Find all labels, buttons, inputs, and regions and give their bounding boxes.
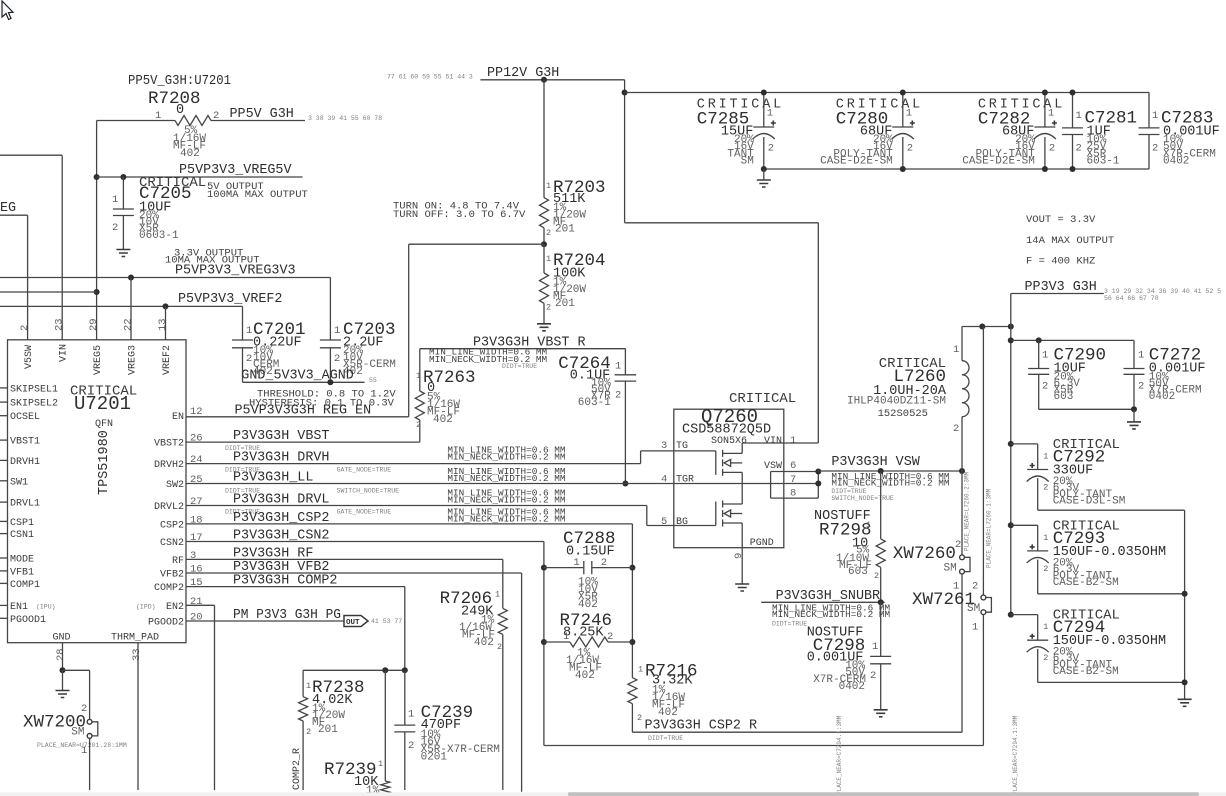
svg-text:PP5V G3H: PP5V G3H bbox=[230, 107, 294, 122]
svg-text:VFB2: VFB2 bbox=[160, 570, 184, 581]
wire VREF2 stub pin 13 bbox=[165, 306, 167, 339]
svg-text:9: 9 bbox=[733, 553, 745, 559]
resistor R7238 body bbox=[299, 697, 308, 721]
wire C7294 return bbox=[1038, 681, 1185, 683]
pin stub VBST1 bbox=[0, 439, 8, 441]
wire XW7261 pin1 lead bbox=[982, 615, 984, 746]
svg-text:TPS51980: TPS51980 bbox=[97, 430, 112, 495]
wire R7238 bottom lead bbox=[302, 721, 304, 790]
wire R7246 left lead bbox=[544, 641, 570, 643]
capacitor C7292 bbox=[1011, 443, 1038, 445]
svg-text:2: 2 bbox=[497, 642, 502, 652]
capacitor C7290 plates bbox=[1028, 369, 1049, 375]
svg-text:1: 1 bbox=[790, 435, 796, 447]
svg-text:0402: 0402 bbox=[839, 681, 865, 693]
svg-text:VIN: VIN bbox=[764, 436, 782, 447]
wire C7272 bottom lead bbox=[1133, 374, 1135, 409]
svg-text:201: 201 bbox=[555, 298, 575, 310]
svg-text:16: 16 bbox=[190, 564, 203, 576]
wire C7239 bottom lead bbox=[404, 732, 406, 790]
wire VREG5 riser bbox=[96, 121, 98, 340]
svg-text:18: 18 bbox=[190, 514, 203, 526]
svg-text:2: 2 bbox=[306, 727, 311, 737]
wire LS source to PGND pin 9 bbox=[741, 523, 743, 584]
XW7200 bracket bbox=[92, 722, 98, 736]
svg-text:2: 2 bbox=[607, 631, 613, 643]
svg-text:EG: EG bbox=[0, 201, 16, 216]
XW7261 pin1 circle bbox=[981, 610, 986, 615]
svg-text:TG: TG bbox=[676, 441, 688, 452]
pin stub PGOOD1 bbox=[0, 617, 8, 619]
resistor R7206 body bbox=[498, 608, 507, 634]
svg-text:CASE-D3L-SM: CASE-D3L-SM bbox=[1053, 495, 1126, 507]
svg-text:25: 25 bbox=[190, 474, 203, 486]
wire XW7260 pin2 lead bbox=[961, 471, 963, 555]
svg-text:CSN1: CSN1 bbox=[10, 530, 34, 541]
svg-text:3 38 39 41 55 60 78: 3 38 39 41 55 60 78 bbox=[308, 115, 382, 122]
svg-text:1: 1 bbox=[378, 759, 383, 769]
net P3V3G3H_VSW bbox=[818, 470, 962, 472]
XW7200 pin1 circle bbox=[87, 734, 92, 739]
svg-text:402: 402 bbox=[180, 148, 200, 160]
svg-text:EN1: EN1 bbox=[10, 602, 28, 613]
wire V5SW riser pin 2 bbox=[27, 215, 29, 340]
junction C7239 bbox=[402, 667, 408, 673]
wire caps bottom rail bbox=[764, 168, 1149, 170]
svg-text:PM P3V3 G3H PG: PM P3V3 G3H PG bbox=[233, 608, 341, 623]
svg-text:22: 22 bbox=[123, 318, 135, 331]
svg-text:DIDT=TRUE: DIDT=TRUE bbox=[502, 363, 537, 370]
wire C7293 return bbox=[1038, 593, 1185, 595]
svg-text:(IPU): (IPU) bbox=[36, 604, 56, 611]
wire GND pin28 bbox=[62, 643, 64, 671]
svg-text:BG: BG bbox=[676, 517, 688, 528]
ground under R7204 bbox=[537, 324, 551, 331]
svg-text:2: 2 bbox=[907, 143, 913, 155]
svg-text:2: 2 bbox=[1043, 653, 1048, 663]
svg-text:1: 1 bbox=[563, 631, 569, 643]
wire R7246 right lead bbox=[608, 641, 632, 643]
ground under C7272 bbox=[1127, 422, 1141, 429]
svg-text:PGOOD2: PGOOD2 bbox=[148, 618, 184, 629]
junction XW7261 branch bbox=[979, 324, 985, 330]
svg-text:603: 603 bbox=[848, 566, 868, 578]
svg-text:1: 1 bbox=[866, 520, 871, 530]
svg-text:COMP2_R: COMP2_R bbox=[292, 748, 303, 790]
svg-text:603-1: 603-1 bbox=[578, 397, 611, 409]
wire VIN riser pin 23 bbox=[61, 155, 63, 340]
svg-text:15: 15 bbox=[190, 577, 203, 589]
svg-text:U7201: U7201 bbox=[74, 393, 131, 415]
wire C7288 right lead bbox=[592, 567, 632, 569]
svg-text:MIN_NECK_WIDTH=0.2 MM: MIN_NECK_WIDTH=0.2 MM bbox=[447, 473, 566, 484]
pin stub SW1 bbox=[0, 480, 8, 482]
svg-text:V5SW: V5SW bbox=[24, 345, 35, 369]
svg-text:29: 29 bbox=[88, 318, 100, 331]
resistor R7216 body bbox=[628, 678, 637, 704]
svg-text:TGR: TGR bbox=[676, 475, 694, 486]
svg-text:33: 33 bbox=[131, 648, 143, 661]
svg-text:PLACE_NEAR=C7294.1:3MM: PLACE_NEAR=C7294.1:3MM bbox=[836, 715, 843, 795]
svg-text:MIN_NECK_WIDTH=0.2 MM: MIN_NECK_WIDTH=0.2 MM bbox=[447, 451, 566, 462]
wire R7206 top lead bbox=[502, 559, 504, 608]
svg-text:100MA MAX OUTPUT: 100MA MAX OUTPUT bbox=[207, 189, 308, 201]
junction R7203 on PP12V bbox=[541, 77, 547, 83]
svg-text:402: 402 bbox=[578, 599, 598, 611]
svg-text:1: 1 bbox=[546, 181, 551, 191]
svg-text:0402: 0402 bbox=[1163, 156, 1189, 168]
svg-text:GND_5V3V3_AGND: GND_5V3V3_AGND bbox=[241, 369, 353, 384]
svg-text:2: 2 bbox=[1138, 381, 1144, 393]
resistor R7263 body bbox=[415, 391, 424, 420]
wire caps top rail bbox=[625, 92, 1149, 94]
svg-text:RF: RF bbox=[172, 556, 184, 567]
svg-text:DIDT=TRUE: DIDT=TRUE bbox=[772, 621, 807, 628]
scrollbar thumb bbox=[568, 792, 1199, 796]
wire R7204 top lead bbox=[543, 244, 545, 273]
pin stub MODE bbox=[0, 557, 8, 559]
svg-text:P3V3G3H DRVH: P3V3G3H DRVH bbox=[233, 451, 329, 466]
wire C7272 top lead bbox=[1133, 340, 1135, 368]
svg-text:2: 2 bbox=[546, 303, 551, 313]
svg-text:2: 2 bbox=[1049, 143, 1055, 155]
inductor L7260 coil bbox=[962, 361, 969, 417]
svg-text:2: 2 bbox=[874, 571, 879, 581]
svg-text:(IPD): (IPD) bbox=[136, 604, 156, 611]
svg-text:2: 2 bbox=[615, 390, 621, 402]
wire CSP2 riser down to R7216 bbox=[631, 524, 633, 678]
net P5VP3V3_VREG5V bbox=[97, 176, 303, 178]
net P5VP3V3_VREF2 bbox=[0, 305, 243, 307]
svg-text:1: 1 bbox=[81, 745, 87, 757]
resistor R7246 body bbox=[570, 637, 608, 647]
XW7260 bracket bbox=[964, 557, 970, 571]
svg-text:1: 1 bbox=[573, 557, 579, 569]
svg-text:P3V3G3H VBST: P3V3G3H VBST bbox=[233, 429, 329, 444]
wire XW7200 pin2 lead bbox=[89, 670, 91, 719]
svg-text:402: 402 bbox=[474, 637, 494, 649]
svg-text:VIN: VIN bbox=[59, 344, 70, 362]
svg-text:EN2: EN2 bbox=[166, 602, 184, 613]
net PP12V G3H bbox=[480, 79, 624, 81]
svg-text:1: 1 bbox=[408, 709, 414, 721]
svg-text:0603-1: 0603-1 bbox=[139, 230, 179, 242]
svg-text:23: 23 bbox=[54, 318, 66, 331]
svg-text:0: 0 bbox=[176, 103, 184, 118]
svg-text:17: 17 bbox=[190, 532, 203, 544]
svg-text:COMP1: COMP1 bbox=[10, 580, 40, 591]
svg-text:MIN_NECK_WIDTH=0.2 MM: MIN_NECK_WIDTH=0.2 MM bbox=[447, 494, 566, 505]
wire HS drain to VIN bbox=[741, 443, 743, 453]
svg-text:1: 1 bbox=[615, 361, 621, 373]
svg-text:2: 2 bbox=[334, 353, 340, 365]
svg-text:VSW: VSW bbox=[764, 461, 782, 472]
wire C7290 top lead bbox=[1038, 340, 1040, 368]
svg-text:EN: EN bbox=[172, 412, 184, 423]
svg-text:6: 6 bbox=[790, 460, 796, 472]
pin stub DRVH1 bbox=[0, 459, 8, 461]
svg-text:P3V3G3H_CSP2: P3V3G3H_CSP2 bbox=[233, 511, 329, 526]
ground output caps bbox=[1178, 699, 1192, 706]
svg-text:IHLP4040DZ11-SM: IHLP4040DZ11-SM bbox=[847, 396, 946, 408]
svg-text:201: 201 bbox=[555, 224, 575, 236]
svg-text:2: 2 bbox=[1043, 564, 1048, 574]
svg-text:SW2: SW2 bbox=[166, 480, 184, 491]
svg-text:PP12V G3H: PP12V G3H bbox=[487, 66, 559, 81]
XW7261 bracket bbox=[986, 598, 992, 613]
svg-text:PP3V3 G3H: PP3V3 G3H bbox=[1025, 280, 1097, 295]
wire C7294 bottom lead bbox=[1037, 649, 1039, 683]
wire COMP2 riser bbox=[404, 587, 406, 671]
svg-text:PGOOD1: PGOOD1 bbox=[10, 615, 46, 626]
svg-text:SW1: SW1 bbox=[10, 477, 28, 488]
wire DRVL step down bbox=[646, 506, 648, 526]
wire C7298 top lead bbox=[880, 602, 882, 656]
wire R7203 top lead bbox=[543, 80, 545, 198]
svg-text:2: 2 bbox=[601, 557, 607, 569]
wire V5SW feed bbox=[0, 214, 28, 216]
svg-text:2: 2 bbox=[955, 539, 961, 551]
OUT flag PGOOD bbox=[344, 616, 368, 627]
wire EN branch horizontal bbox=[409, 243, 544, 245]
wire C7205 bottom lead bbox=[122, 216, 124, 250]
svg-text:2: 2 bbox=[953, 423, 959, 435]
svg-text:OUT: OUT bbox=[346, 619, 360, 627]
svg-text:SKIPSEL1: SKIPSEL1 bbox=[10, 384, 58, 395]
net P3V3G3H_CSP2 bbox=[186, 523, 632, 525]
svg-text:1: 1 bbox=[1076, 110, 1082, 122]
pin stub SKIPSEL2 bbox=[0, 401, 8, 403]
svg-text:20: 20 bbox=[190, 612, 203, 624]
svg-text:0201: 0201 bbox=[421, 752, 448, 764]
wire CSN2 riser down bbox=[543, 542, 545, 746]
svg-text:CASE-D2E-SM: CASE-D2E-SM bbox=[962, 156, 1035, 168]
wire C7293 bottom lead bbox=[1037, 560, 1039, 594]
wire C7290/C7272 bottom rail bbox=[1039, 408, 1134, 410]
junction L7260/XW7260 bbox=[959, 468, 965, 474]
svg-text:OCSEL: OCSEL bbox=[10, 412, 40, 423]
capacitor C7298 plates bbox=[870, 656, 891, 663]
svg-text:26: 26 bbox=[190, 433, 203, 445]
svg-text:28: 28 bbox=[55, 648, 67, 661]
svg-text:F = 400 KHZ: F = 400 KHZ bbox=[1026, 256, 1095, 268]
svg-text:P3V3G3H DRVL: P3V3G3H DRVL bbox=[233, 493, 329, 508]
svg-text:2: 2 bbox=[1076, 143, 1082, 155]
wire L7260 to PP3V3 bbox=[962, 326, 1011, 328]
resistor R7239 body (cut) bbox=[381, 781, 390, 796]
wire R7239 top lead bbox=[384, 670, 386, 781]
junction C7292 bbox=[1008, 441, 1014, 447]
net P3V3G3H_CSP2_R bbox=[632, 731, 962, 733]
junction VREF2 pin bbox=[163, 303, 169, 309]
svg-text:1: 1 bbox=[972, 622, 978, 634]
net PP3V3 G3H bbox=[1011, 293, 1104, 295]
svg-text:1: 1 bbox=[1043, 622, 1048, 632]
svg-text:5: 5 bbox=[661, 516, 667, 528]
svg-text:HYSTERESIS: 0.1 TO 0.3V: HYSTERESIS: 0.1 TO 0.3V bbox=[249, 398, 395, 410]
svg-text:DIDT=TRUE: DIDT=TRUE bbox=[831, 488, 866, 495]
svg-text:CSP2: CSP2 bbox=[160, 520, 184, 531]
svg-text:MODE: MODE bbox=[10, 555, 34, 566]
svg-text:VOUT = 3.3V: VOUT = 3.3V bbox=[1026, 214, 1096, 226]
svg-text:1: 1 bbox=[1043, 451, 1048, 461]
XW7260 pin2 circle bbox=[960, 555, 965, 560]
svg-text:13: 13 bbox=[157, 318, 169, 331]
svg-text:1: 1 bbox=[334, 325, 340, 337]
svg-text:201: 201 bbox=[318, 724, 338, 736]
svg-text:P3V3G3H_CSN2: P3V3G3H_CSN2 bbox=[233, 529, 329, 544]
wire R7208 to PP5V G3H bbox=[211, 120, 305, 122]
svg-text:PGND: PGND bbox=[750, 538, 774, 549]
svg-text:152S0525: 152S0525 bbox=[878, 408, 928, 420]
svg-text:PLACE_NEAR=L7260.1:3MM: PLACE_NEAR=L7260.1:3MM bbox=[986, 488, 993, 568]
svg-text:1: 1 bbox=[1042, 350, 1048, 362]
wire XW7260 pin1 to CSP2_R bbox=[961, 574, 963, 732]
net P5VP3V3_VREG3V3 bbox=[0, 277, 330, 279]
svg-text:XW7260: XW7260 bbox=[893, 544, 956, 564]
wire EN2 down bbox=[214, 605, 216, 790]
wire DRVH step up bbox=[640, 451, 642, 464]
svg-text:402: 402 bbox=[658, 707, 678, 719]
wire TG into Q7260 bbox=[641, 450, 716, 452]
wire C7201 bottom lead bbox=[242, 348, 244, 383]
svg-text:1: 1 bbox=[767, 108, 773, 120]
svg-text:SWITCH_NODE=TRUE: SWITCH_NODE=TRUE bbox=[337, 488, 400, 495]
ground Q7260 PGND bbox=[735, 584, 749, 591]
junction pin28 gnd bbox=[60, 667, 66, 673]
capacitor C7293 bbox=[1011, 524, 1038, 526]
svg-text:TURN OFF: 3.0 TO 6.7V: TURN OFF: 3.0 TO 6.7V bbox=[393, 209, 526, 221]
junction ground C7272 bbox=[1131, 406, 1137, 412]
resistor R7203 body bbox=[540, 198, 549, 228]
svg-text:MIN_NECK_WIDTH=0.2 MM: MIN_NECK_WIDTH=0.2 MM bbox=[447, 513, 566, 524]
svg-text:2: 2 bbox=[416, 420, 421, 430]
svg-text:7: 7 bbox=[790, 474, 796, 486]
svg-text:2: 2 bbox=[112, 222, 118, 234]
svg-text:VBST1: VBST1 bbox=[10, 437, 40, 448]
svg-text:21: 21 bbox=[190, 596, 203, 608]
svg-text:SM: SM bbox=[741, 156, 754, 168]
capacitor C7201 plates bbox=[232, 340, 253, 348]
svg-text:SM: SM bbox=[967, 603, 980, 615]
wire C7288 left lead bbox=[544, 567, 583, 569]
svg-text:2: 2 bbox=[870, 670, 876, 682]
wire Q7260 VIN riser bbox=[817, 223, 819, 443]
junction C7294 bbox=[1008, 612, 1014, 618]
svg-text:2: 2 bbox=[246, 353, 252, 365]
junction C7294 return bbox=[1182, 679, 1188, 685]
net P3V3G3H_VFB2 bbox=[186, 572, 522, 574]
svg-text:2: 2 bbox=[19, 325, 31, 331]
wire EN riser bbox=[408, 244, 410, 417]
svg-text:MIN_NECK_WIDTH=0.2 MM: MIN_NECK_WIDTH=0.2 MM bbox=[831, 478, 950, 489]
svg-text:1: 1 bbox=[495, 590, 500, 600]
wire switch node internal bbox=[741, 472, 743, 504]
net P5VP3V3G3H_REG_EN bbox=[186, 416, 409, 418]
scrollbar track bbox=[0, 792, 1226, 796]
svg-text:VREG3: VREG3 bbox=[128, 345, 139, 375]
XW7260 pin1 circle bbox=[960, 569, 965, 574]
svg-text:GATE_NODE=TRUE: GATE_NODE=TRUE bbox=[337, 467, 392, 474]
svg-text:2: 2 bbox=[768, 143, 774, 155]
wire C7290 top rail bbox=[1011, 339, 1134, 341]
svg-text:2: 2 bbox=[408, 740, 414, 752]
junction C7288.2 bbox=[629, 565, 635, 571]
wire PP12V riser down bbox=[624, 80, 626, 223]
svg-text:COMP2: COMP2 bbox=[154, 583, 184, 594]
svg-text:1: 1 bbox=[246, 325, 252, 337]
svg-text:P3V3G3H CSP2 R: P3V3G3H CSP2 R bbox=[645, 719, 758, 734]
net P3V3G3H_SNUBR bbox=[761, 601, 884, 603]
svg-text:3: 3 bbox=[190, 550, 196, 562]
svg-text:1: 1 bbox=[546, 254, 551, 264]
svg-text:2: 2 bbox=[546, 228, 551, 238]
wire C7290 bottom lead bbox=[1038, 374, 1040, 409]
wire XW7200 pin1 down bbox=[89, 738, 91, 790]
wire EN2 stub bbox=[186, 604, 215, 606]
wire to Q7260 VIN horizontal bbox=[625, 222, 819, 224]
svg-text:1: 1 bbox=[112, 194, 118, 206]
net GND_5V3V3_AGND bbox=[243, 381, 365, 383]
svg-text:1: 1 bbox=[416, 371, 421, 381]
junction caps rail branch bbox=[622, 90, 628, 96]
transistor Q7260 box bbox=[674, 409, 784, 548]
net P3V3G3H_DRVL bbox=[186, 505, 647, 507]
capacitor C7203 plates bbox=[320, 340, 341, 348]
resistor R7204 body bbox=[540, 273, 549, 303]
cursor pointer top-left bbox=[2, 1, 13, 20]
wire VREG3 stub pin 22 bbox=[130, 278, 132, 340]
junction SNUBR bbox=[878, 599, 884, 605]
wire CSN2 bottom run to XW7261 bbox=[544, 745, 984, 747]
svg-text:CASE-B2-SM: CASE-B2-SM bbox=[1053, 577, 1119, 589]
svg-text:2: 2 bbox=[1042, 381, 1048, 393]
svg-text:MIN_NECK_WIDTH=0.2 MM: MIN_NECK_WIDTH=0.2 MM bbox=[772, 609, 891, 620]
svg-text:1: 1 bbox=[306, 681, 311, 691]
wire L7260 top lead bbox=[961, 327, 963, 361]
wire C7203 bottom lead bbox=[329, 348, 331, 383]
svg-text:14A MAX OUTPUT: 14A MAX OUTPUT bbox=[1026, 235, 1114, 247]
capacitor C7294 bbox=[1011, 614, 1038, 616]
junction VREG3 pin bbox=[128, 275, 134, 281]
net PM_P3V3_G3H_PG bbox=[186, 620, 344, 622]
svg-text:SM: SM bbox=[71, 727, 84, 739]
pin stub SKIPSEL1 bbox=[0, 387, 8, 389]
svg-text:DRVH1: DRVH1 bbox=[10, 457, 40, 468]
wire VFB2 down bbox=[521, 573, 523, 792]
svg-text:VBST2: VBST2 bbox=[154, 439, 184, 450]
wire to XW7200 bbox=[63, 669, 90, 671]
wire R7203 bottom lead bbox=[543, 228, 545, 244]
junction C7293 bbox=[1008, 522, 1014, 528]
svg-text:P3V3G3H COMP2: P3V3G3H COMP2 bbox=[233, 574, 337, 589]
wire R7206 bottom lead bbox=[502, 634, 504, 790]
wire R7298 top lead bbox=[880, 471, 882, 539]
svg-text:P5VP3V3_VREG3V3: P5VP3V3_VREG3V3 bbox=[175, 264, 296, 279]
svg-text:CSP1: CSP1 bbox=[10, 518, 34, 529]
wire R7298 bottom lead bbox=[880, 567, 882, 602]
svg-text:77 61 60 59 55 51 44 3: 77 61 60 59 55 51 44 3 bbox=[387, 74, 473, 81]
svg-text:PLACE_NEAR=L7260.2:3MM: PLACE_NEAR=L7260.2:3MM bbox=[964, 471, 971, 551]
junction C7205 top bbox=[120, 174, 126, 180]
svg-text:GND: GND bbox=[53, 633, 71, 644]
wire VREG5 feed from left bbox=[0, 291, 97, 293]
wire L7260 bottom lead bbox=[961, 417, 963, 471]
wire C7239 top lead bbox=[404, 670, 406, 725]
wire THRM_PAD pin33 down bbox=[137, 643, 139, 790]
wire C7264 top lead bbox=[624, 349, 626, 375]
junction R7246.2 bbox=[629, 639, 635, 645]
